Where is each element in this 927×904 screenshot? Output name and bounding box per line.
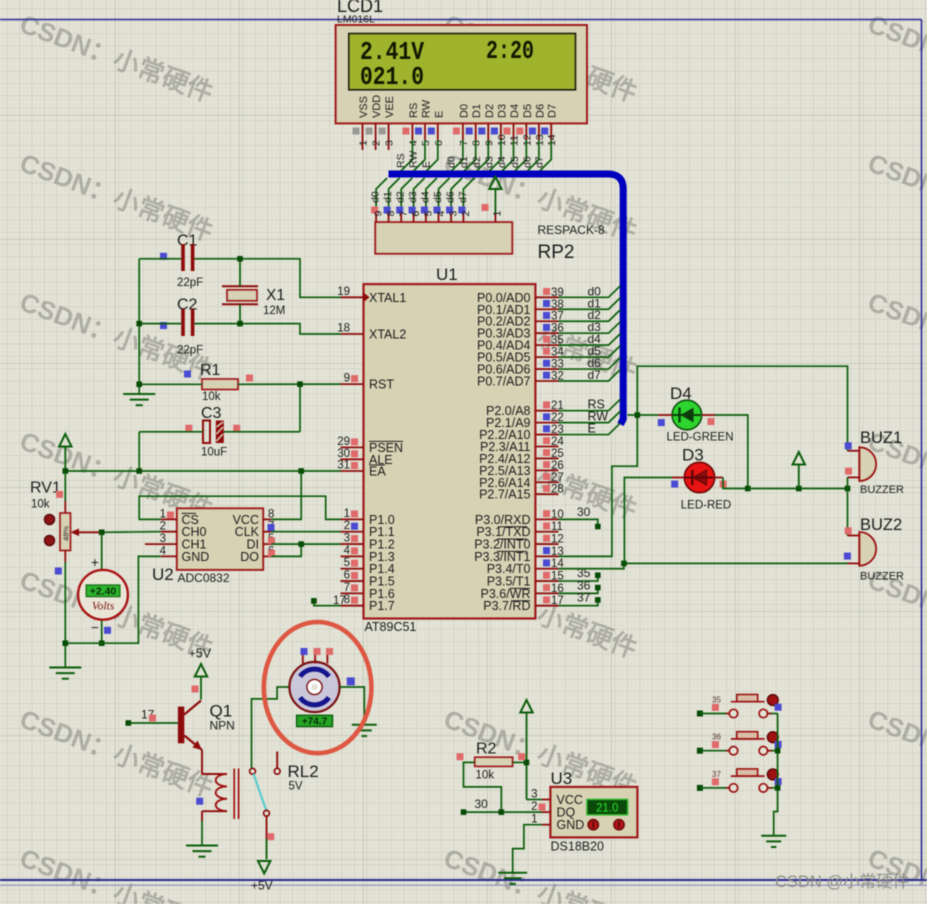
wire relay contact to +5V down terminal (267, 816, 275, 859)
wire relay pivot to motor (252, 687, 290, 768)
svg-text:X1: X1 (266, 287, 285, 304)
svg-text:31: 31 (337, 460, 350, 472)
transistor Q1 NPN (178, 701, 235, 751)
wire +5V rail to EA (63, 468, 341, 474)
wire R2 left to DQ net 30 (464, 762, 502, 812)
svg-text:RS: RS (395, 153, 407, 168)
left ground rail (123, 259, 155, 405)
buzzer BUZ2 (844, 516, 904, 583)
LED D3 LED-RED (671, 446, 731, 512)
svg-text:RL2: RL2 (288, 762, 319, 781)
wire P1.7 net 17 (311, 595, 346, 607)
wires bus to RP2 pins (370, 178, 475, 208)
wire RV1 bottom to ground rail (63, 562, 69, 667)
svg-text:28: 28 (551, 484, 564, 496)
svg-text:11: 11 (551, 521, 563, 533)
annotation red ellipse around motor (264, 622, 372, 753)
svg-text:d2: d2 (395, 191, 407, 203)
power terminal (buzzer rail) (793, 452, 805, 489)
svg-text:ADC0832: ADC0832 (178, 571, 230, 585)
svg-text:12: 12 (521, 134, 533, 146)
svg-text:021.0: 021.0 (360, 62, 424, 92)
svg-text:CSDN @小常硬件: CSDN @小常硬件 (775, 872, 909, 891)
svg-text:35: 35 (712, 696, 721, 705)
svg-text:U2: U2 (152, 565, 174, 584)
svg-text:Volts: Volts (92, 601, 115, 613)
svg-text:GND: GND (182, 550, 210, 564)
svg-text:BUZZER: BUZZER (860, 571, 904, 583)
wire C1/XTAL1 net (139, 256, 340, 297)
svg-text:3: 3 (344, 533, 350, 545)
svg-text:BUZZER: BUZZER (860, 484, 904, 496)
svg-text:3: 3 (448, 211, 460, 217)
svg-text:1: 1 (358, 140, 370, 146)
svg-text:11: 11 (509, 135, 521, 146)
capacitor C1 22pF (160, 233, 203, 290)
wires P3.5 P3.6 P3.7 nets 35 36 37 (559, 566, 601, 606)
svg-text:d1: d1 (458, 156, 470, 168)
svg-text:5: 5 (422, 211, 434, 217)
IC U1 AT89C51 (364, 265, 536, 634)
svg-text:d3: d3 (483, 156, 495, 168)
svg-text:GND: GND (557, 818, 585, 832)
ground (U3) (498, 873, 527, 884)
svg-text:+: + (91, 555, 99, 570)
svg-text:2: 2 (460, 211, 472, 217)
wire U2 CLK to P1.1 (271, 531, 340, 533)
svg-text:d1: d1 (382, 191, 394, 203)
svg-text:d2: d2 (471, 156, 483, 168)
svg-text:30: 30 (475, 797, 489, 811)
wires LCD pins to bus (395, 140, 551, 171)
power +5V terminal (down, relay) (251, 861, 273, 893)
svg-text:d3: d3 (407, 191, 419, 203)
wire common rail to buzzers (748, 486, 851, 492)
svg-text:VSS: VSS (358, 96, 370, 118)
svg-text:30: 30 (577, 505, 591, 519)
wire P3.4 to node and BUZ2 (559, 561, 848, 569)
capacitor C2 22pF (160, 297, 203, 357)
svg-text:3: 3 (384, 140, 396, 146)
svg-text:37: 37 (577, 591, 591, 605)
wire U3 GND to ground (513, 825, 542, 873)
svg-text:18: 18 (337, 323, 350, 335)
svg-text:2: 2 (531, 801, 537, 813)
svg-text:8: 8 (471, 140, 483, 146)
svg-text:7: 7 (344, 582, 350, 594)
wire P3.3/INT1 to D4 anode (559, 415, 638, 556)
svg-text:29: 29 (337, 436, 350, 448)
svg-text:D5: D5 (522, 104, 534, 118)
svg-text:RP2: RP2 (538, 242, 575, 263)
svg-text:DS18B20: DS18B20 (551, 840, 605, 854)
svg-text:37: 37 (712, 770, 721, 779)
svg-text:U1: U1 (436, 265, 458, 284)
svg-text:C3: C3 (201, 405, 222, 422)
svg-text:13: 13 (534, 134, 546, 146)
svg-text:D3: D3 (496, 104, 508, 118)
power +5V terminal (Q1 collector) (189, 647, 212, 700)
svg-text:5: 5 (344, 557, 350, 569)
svg-text:4: 4 (160, 545, 167, 557)
wire voltmeter ground rail to U2 GND (65, 556, 161, 643)
svg-text:D7: D7 (547, 104, 559, 118)
svg-text:d4: d4 (419, 191, 431, 203)
wires U1 P0 to bus, net labels d0-d7 (559, 284, 621, 382)
svg-text:25: 25 (551, 448, 564, 460)
resistor R1 10k (184, 362, 253, 403)
svg-text:E: E (588, 422, 596, 436)
svg-text:d6: d6 (445, 191, 457, 203)
IC U3 DS18B20 (527, 769, 638, 854)
svg-text:D4: D4 (509, 104, 521, 118)
svg-text:LM016L: LM016L (337, 14, 375, 26)
LED D4 LED-GREEN (658, 384, 734, 444)
ground (buttons) (761, 836, 786, 847)
svg-text:3: 3 (160, 533, 166, 545)
svg-text:21.0: 21.0 (596, 802, 618, 814)
potentiometer RV1 10k (30, 471, 102, 575)
svg-text:XTAL2: XTAL2 (369, 328, 406, 342)
push button (net 36) (697, 732, 782, 755)
svg-text:27: 27 (551, 472, 564, 484)
svg-text:U3: U3 (551, 769, 573, 788)
wire Q1 base net 17 (126, 708, 178, 726)
svg-text:D1: D1 (471, 104, 483, 118)
svg-text:AT89C51: AT89C51 (365, 620, 417, 634)
svg-text:P3.7/RD: P3.7/RD (483, 599, 530, 613)
svg-text:1: 1 (344, 508, 350, 520)
svg-text:12M: 12M (263, 305, 285, 317)
crystal X1 12M (222, 286, 285, 317)
svg-text:d0: d0 (445, 156, 457, 168)
svg-text:6: 6 (410, 211, 422, 217)
svg-text:NPN: NPN (210, 719, 235, 733)
wire D3 anode to P3.4 node (624, 478, 672, 564)
svg-text:BUZ2: BUZ2 (860, 516, 902, 534)
wire C3 net (139, 432, 300, 471)
svg-text:2:20: 2:20 (486, 36, 534, 66)
buzzer BUZ1 (845, 429, 904, 496)
svg-text:4: 4 (344, 545, 351, 557)
wire R1/RST net (139, 381, 340, 431)
svg-text:d7: d7 (457, 191, 469, 203)
svg-text:9: 9 (344, 373, 350, 385)
svg-text:d5: d5 (509, 156, 521, 168)
svg-text:6: 6 (344, 570, 350, 582)
wire motor to ground (340, 687, 365, 725)
svg-text:+2.40: +2.40 (90, 586, 117, 598)
wire U2 VCC up to +5V rail (271, 471, 301, 519)
svg-text:d4: d4 (496, 156, 508, 168)
svg-text:26: 26 (551, 460, 564, 472)
svg-text:C2: C2 (177, 297, 198, 314)
svg-text:D2: D2 (484, 104, 496, 118)
svg-text:LED-GREEN: LED-GREEN (666, 432, 733, 444)
svg-text:RW: RW (408, 151, 420, 168)
svg-text:DO: DO (240, 550, 259, 564)
wire RV1 wiper to U2 CH0 (99, 530, 161, 536)
ground (motor) (352, 725, 377, 736)
svg-text:12: 12 (551, 534, 564, 546)
U1 right pins (474, 287, 564, 613)
svg-text:d6: d6 (521, 156, 533, 168)
svg-text:+5V: +5V (251, 879, 273, 893)
wire button common to ground (774, 714, 781, 836)
LCD LCD1 LM016L (336, 0, 587, 123)
svg-text:10k: 10k (202, 391, 221, 403)
svg-text:22pF: 22pF (177, 277, 203, 289)
power +5V terminal (RP2 pin 1) (482, 177, 504, 223)
svg-text:RESPACK-8: RESPACK-8 (538, 223, 605, 237)
svg-text:P1.7: P1.7 (369, 599, 395, 613)
svg-text:7: 7 (458, 140, 470, 146)
svg-text:8: 8 (385, 211, 397, 217)
svg-text:XTAL1: XTAL1 (369, 291, 406, 305)
power +5V terminal (U3) (520, 700, 532, 800)
svg-text:4: 4 (435, 211, 447, 217)
svg-text:C1: C1 (177, 233, 198, 250)
svg-text:D0: D0 (458, 104, 470, 118)
svg-text:2: 2 (160, 521, 166, 533)
svg-text:10: 10 (496, 134, 508, 146)
wire DQ net 30 (461, 797, 542, 815)
svg-text:4: 4 (407, 140, 419, 146)
svg-text:RST: RST (369, 378, 394, 392)
svg-text:E: E (420, 161, 432, 168)
svg-text:30: 30 (337, 448, 350, 460)
ground (RV1) (49, 668, 81, 679)
wire D3 cathode to common rail (723, 478, 751, 492)
svg-text:14: 14 (546, 134, 558, 146)
svg-text:d7: d7 (534, 156, 546, 168)
wire D4 anode node (628, 412, 659, 418)
IC U2 ADC0832 (145, 508, 275, 585)
svg-text:R2: R2 (476, 741, 497, 758)
svg-text:22pF: 22pF (177, 345, 203, 357)
wire C2/XTAL2 net (139, 304, 340, 334)
svg-text:VEE: VEE (384, 96, 396, 118)
wires U1 P2.0-P2.2 to bus, net labels RS RW E (559, 398, 621, 436)
svg-text:P2.7/A15: P2.7/A15 (479, 488, 530, 502)
svg-text:1: 1 (492, 211, 504, 217)
svg-text:17: 17 (333, 595, 346, 607)
svg-text:RS: RS (408, 103, 420, 118)
svg-text:+5V: +5V (189, 647, 212, 661)
svg-text:5V: 5V (289, 781, 303, 793)
svg-text:VDD: VDD (371, 95, 383, 118)
svg-text:+74.7: +74.7 (302, 717, 328, 728)
push button (net 37) (697, 769, 782, 792)
svg-text:10k: 10k (476, 770, 495, 782)
svg-text:2: 2 (344, 520, 350, 532)
capacitor C3 10uF (185, 405, 240, 459)
svg-text:R1: R1 (200, 362, 221, 379)
svg-text:9: 9 (483, 140, 495, 146)
svg-text:E: E (433, 111, 445, 118)
data bus (blue) (389, 174, 624, 425)
svg-text:EA: EA (369, 465, 386, 479)
ground (relay coil) (186, 846, 218, 857)
svg-text:LED-RED: LED-RED (681, 500, 731, 512)
svg-text:36: 36 (712, 733, 721, 742)
svg-text:BUZ1: BUZ1 (860, 429, 902, 447)
U1 left pins (337, 286, 406, 613)
svg-text:10uF: 10uF (201, 447, 227, 459)
wire P3.0 net 30 (559, 505, 601, 529)
svg-text:10k: 10k (31, 499, 50, 511)
wire U2 CS to U1 P1.0 (139, 496, 340, 519)
wire D4 node to BUZ1 pin1 (637, 366, 847, 451)
svg-text:D6: D6 (534, 104, 546, 118)
LCD pin stubs 1-14 (353, 123, 559, 150)
svg-text:19: 19 (337, 286, 350, 298)
svg-text:2: 2 (371, 140, 383, 146)
svg-text:48%: 48% (62, 526, 71, 541)
svg-text:24: 24 (551, 436, 564, 448)
svg-text:d5: d5 (432, 191, 444, 203)
wire relay coil to ground (201, 821, 203, 846)
resistor pack RP2 RESPACK-8 (371, 207, 605, 264)
wire U2 DI/DO to U1 P1.2 (271, 541, 340, 556)
svg-text:RW: RW (421, 99, 433, 118)
svg-text:d0: d0 (370, 191, 382, 203)
motor with +74.7 readout (289, 648, 354, 728)
svg-text:9: 9 (373, 211, 385, 217)
svg-text:−: − (91, 620, 99, 635)
svg-text:P0.7/AD7: P0.7/AD7 (477, 375, 531, 389)
power +5V terminal (rail) (59, 434, 71, 471)
resistor R2 10k (457, 741, 527, 782)
svg-text:d7: d7 (588, 368, 602, 382)
svg-text:6: 6 (433, 140, 445, 146)
relay RL2 5V (196, 750, 318, 821)
wire BUZ1 pin2 down to BUZ2 pin1 (847, 477, 849, 535)
wire D4 cathode to common rail (715, 415, 748, 489)
svg-text:5: 5 (420, 140, 432, 146)
svg-text:7: 7 (398, 211, 410, 217)
push button (net 35) (697, 695, 782, 718)
voltmeter +2.40 (78, 532, 128, 646)
